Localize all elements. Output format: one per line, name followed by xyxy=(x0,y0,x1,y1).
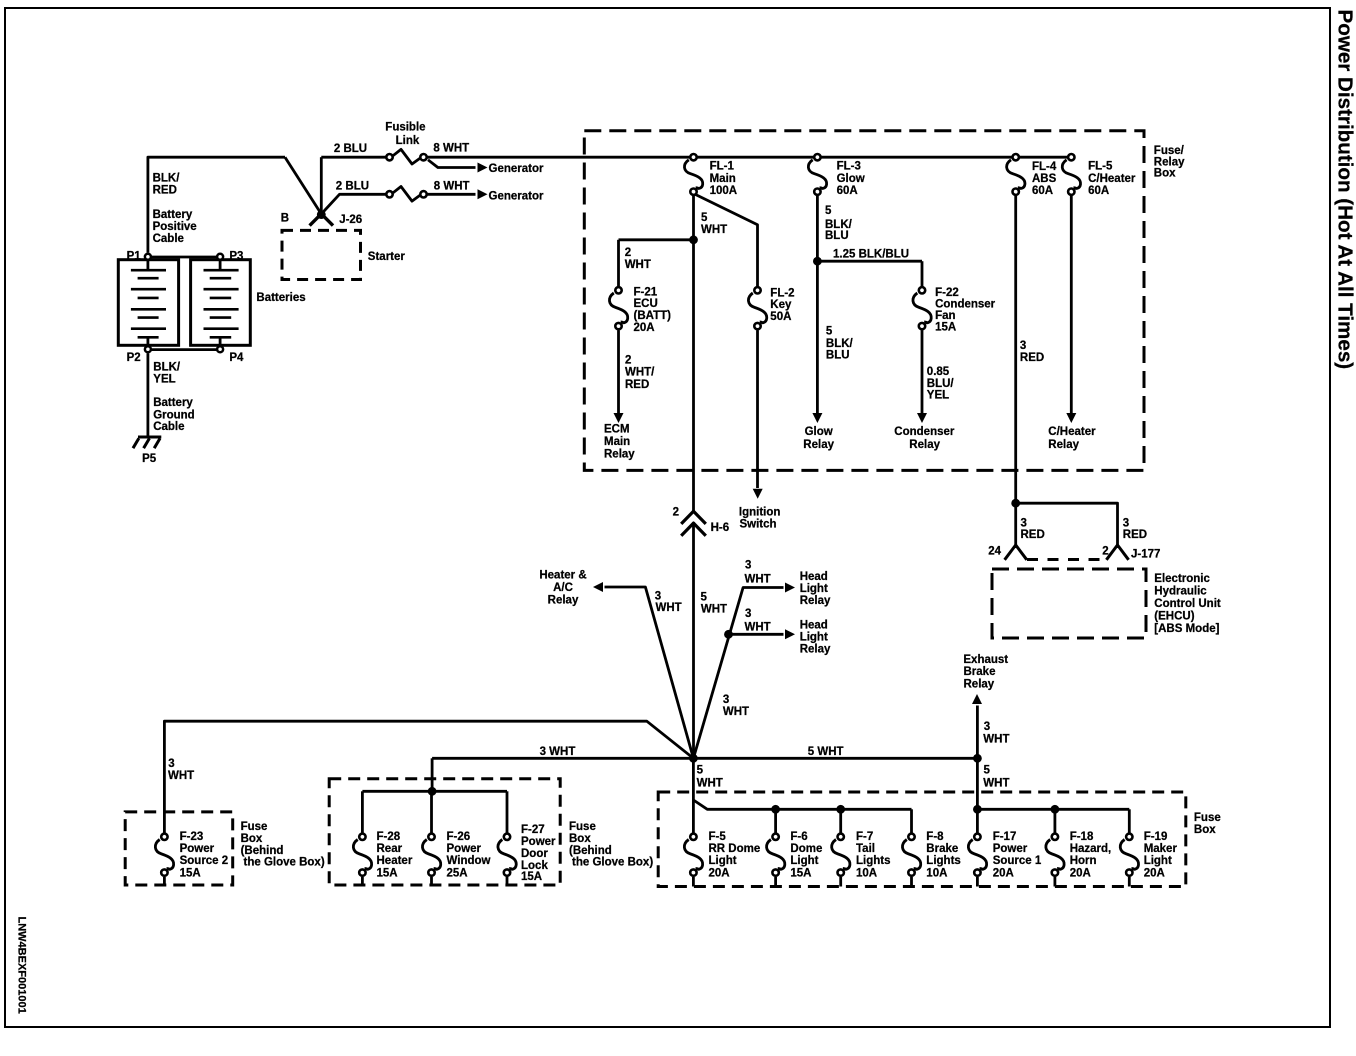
svg-text:F-27: F-27 xyxy=(521,824,545,836)
svg-text:P5: P5 xyxy=(142,453,157,465)
svg-text:Head: Head xyxy=(800,571,828,583)
svg-text:1.25 BLK/BLU: 1.25 BLK/BLU xyxy=(833,249,909,261)
svg-text:100A: 100A xyxy=(710,185,738,197)
svg-text:B: B xyxy=(281,213,289,225)
svg-text:2: 2 xyxy=(673,506,679,518)
svg-text:3: 3 xyxy=(745,608,751,620)
svg-text:20A: 20A xyxy=(709,867,730,879)
svg-text:Cable: Cable xyxy=(153,233,184,245)
svg-text:WHT: WHT xyxy=(168,770,194,782)
svg-text:Heater &: Heater & xyxy=(539,570,586,582)
svg-text:F-18: F-18 xyxy=(1070,831,1094,843)
svg-text:F-22: F-22 xyxy=(935,287,959,299)
svg-text:Light: Light xyxy=(800,583,828,595)
svg-text:Tail: Tail xyxy=(856,843,875,855)
svg-text:RED: RED xyxy=(625,379,649,391)
svg-text:BLK/: BLK/ xyxy=(153,172,181,184)
svg-text:20A: 20A xyxy=(1070,867,1091,879)
svg-text:WHT: WHT xyxy=(723,706,749,718)
svg-text:3: 3 xyxy=(745,559,751,571)
svg-text:Source 1: Source 1 xyxy=(993,855,1042,867)
svg-text:P2: P2 xyxy=(127,352,141,364)
svg-text:Lights: Lights xyxy=(926,855,961,867)
svg-text:Relay: Relay xyxy=(800,595,831,607)
svg-text:F-8: F-8 xyxy=(926,831,944,843)
svg-text:(BATT): (BATT) xyxy=(634,310,672,322)
svg-text:Box: Box xyxy=(241,833,263,845)
svg-text:WHT: WHT xyxy=(983,734,1009,746)
svg-text:Starter: Starter xyxy=(368,251,406,263)
svg-text:F-17: F-17 xyxy=(993,831,1017,843)
svg-text:Heater: Heater xyxy=(377,855,413,867)
svg-text:3 WHT: 3 WHT xyxy=(540,746,576,758)
svg-text:P1: P1 xyxy=(127,251,142,263)
svg-text:Door: Door xyxy=(521,848,548,860)
svg-text:Hazard,: Hazard, xyxy=(1070,843,1112,855)
svg-text:Maker: Maker xyxy=(1144,843,1178,855)
svg-text:WHT: WHT xyxy=(697,778,723,790)
svg-text:5: 5 xyxy=(697,765,704,777)
svg-text:ABS: ABS xyxy=(1032,173,1057,185)
svg-text:(Behind: (Behind xyxy=(569,845,612,857)
svg-text:Dome: Dome xyxy=(790,843,822,855)
svg-text:5: 5 xyxy=(984,765,991,777)
svg-text:RED: RED xyxy=(1123,529,1147,541)
svg-text:15A: 15A xyxy=(180,867,201,879)
svg-text:Horn: Horn xyxy=(1070,855,1097,867)
svg-text:F-6: F-6 xyxy=(790,831,807,843)
svg-text:Glow: Glow xyxy=(837,173,865,185)
svg-text:Lock: Lock xyxy=(521,860,548,872)
svg-text:Rear: Rear xyxy=(377,843,403,855)
svg-text:3: 3 xyxy=(1021,517,1027,529)
svg-text:20A: 20A xyxy=(634,322,655,334)
svg-text:3: 3 xyxy=(723,694,729,706)
svg-text:15A: 15A xyxy=(377,867,398,879)
svg-text:Exhaust: Exhaust xyxy=(963,654,1008,666)
svg-text:F-23: F-23 xyxy=(180,831,204,843)
svg-text:20A: 20A xyxy=(1144,867,1165,879)
svg-text:F-19: F-19 xyxy=(1144,831,1168,843)
svg-text:Fuse: Fuse xyxy=(241,821,268,833)
svg-text:FL-2: FL-2 xyxy=(770,287,794,299)
svg-text:Generator: Generator xyxy=(489,191,544,203)
svg-text:Power: Power xyxy=(521,836,556,848)
svg-text:8 WHT: 8 WHT xyxy=(433,143,469,155)
svg-text:BLK/: BLK/ xyxy=(826,338,854,350)
svg-text:Light: Light xyxy=(709,855,737,867)
svg-text:Relay: Relay xyxy=(803,439,834,451)
svg-text:RR Dome: RR Dome xyxy=(709,843,761,855)
svg-text:H-6: H-6 xyxy=(711,522,730,534)
svg-text:Fan: Fan xyxy=(935,310,955,322)
svg-text:F-7: F-7 xyxy=(856,831,873,843)
svg-text:25A: 25A xyxy=(447,867,468,879)
svg-text:Fuse/: Fuse/ xyxy=(1154,145,1185,157)
svg-text:WHT/: WHT/ xyxy=(625,367,655,379)
svg-text:3: 3 xyxy=(168,758,174,770)
svg-text:Lights: Lights xyxy=(856,855,891,867)
svg-text:Head: Head xyxy=(800,620,828,632)
svg-text:20A: 20A xyxy=(993,867,1014,879)
svg-text:15A: 15A xyxy=(521,871,542,883)
svg-text:RED: RED xyxy=(153,185,177,197)
svg-text:FL-4: FL-4 xyxy=(1032,161,1057,173)
svg-text:50A: 50A xyxy=(770,311,791,323)
svg-text:5: 5 xyxy=(825,205,832,217)
svg-text:Cable: Cable xyxy=(153,421,184,433)
svg-text:Ignition: Ignition xyxy=(739,506,781,518)
svg-text:0.85: 0.85 xyxy=(927,366,950,378)
svg-text:LNW4BEXF001001: LNW4BEXF001001 xyxy=(16,917,28,1014)
svg-text:Control Unit: Control Unit xyxy=(1154,598,1221,610)
svg-text:ECM: ECM xyxy=(604,424,630,436)
svg-text:the Glove Box): the Glove Box) xyxy=(572,857,653,869)
svg-text:F-28: F-28 xyxy=(377,831,401,843)
svg-text:2 BLU: 2 BLU xyxy=(336,181,369,193)
svg-text:BLU: BLU xyxy=(826,349,850,361)
svg-text:Switch: Switch xyxy=(740,519,777,531)
svg-text:WHT: WHT xyxy=(745,622,771,634)
svg-text:RED: RED xyxy=(1021,529,1045,541)
svg-text:the Glove Box): the Glove Box) xyxy=(244,857,325,869)
svg-text:F-26: F-26 xyxy=(447,831,471,843)
svg-text:WHT: WHT xyxy=(745,573,771,585)
svg-text:3: 3 xyxy=(1020,340,1026,352)
svg-text:3: 3 xyxy=(1123,517,1129,529)
svg-text:Box: Box xyxy=(569,833,591,845)
svg-text:Glow: Glow xyxy=(805,426,833,438)
svg-text:WHT: WHT xyxy=(701,224,727,236)
svg-text:J-177: J-177 xyxy=(1131,549,1160,561)
svg-text:WHT: WHT xyxy=(701,604,727,616)
svg-text:Box: Box xyxy=(1194,824,1216,836)
svg-text:Generator: Generator xyxy=(489,163,544,175)
svg-text:YEL: YEL xyxy=(153,374,175,386)
svg-text:5: 5 xyxy=(701,212,708,224)
svg-text:FL-1: FL-1 xyxy=(710,161,735,173)
svg-text:15A: 15A xyxy=(935,322,956,334)
svg-text:FL-5: FL-5 xyxy=(1088,161,1113,173)
svg-text:Power Distribution (Hot At All: Power Distribution (Hot At All Times) xyxy=(1334,10,1356,370)
svg-text:Brake: Brake xyxy=(964,666,996,678)
svg-text:WHT: WHT xyxy=(656,602,682,614)
svg-text:Main: Main xyxy=(710,173,736,185)
svg-text:2: 2 xyxy=(625,355,631,367)
svg-text:(Behind: (Behind xyxy=(241,845,284,857)
svg-text:2: 2 xyxy=(625,247,631,259)
svg-text:C/Heater: C/Heater xyxy=(1088,173,1136,185)
svg-text:Relay: Relay xyxy=(800,644,831,656)
svg-text:Main: Main xyxy=(604,436,630,448)
svg-text:Battery: Battery xyxy=(153,397,193,409)
svg-text:[ABS Mode]: [ABS Mode] xyxy=(1154,623,1219,635)
svg-text:Fusible: Fusible xyxy=(385,122,425,134)
svg-text:3: 3 xyxy=(984,721,990,733)
svg-text:5: 5 xyxy=(826,326,833,338)
svg-text:Battery: Battery xyxy=(153,209,193,221)
svg-text:J-26: J-26 xyxy=(339,214,362,226)
svg-text:3: 3 xyxy=(655,590,661,602)
svg-text:BLU: BLU xyxy=(825,230,849,242)
svg-text:Positive: Positive xyxy=(153,221,197,233)
svg-text:Relay: Relay xyxy=(964,678,995,690)
svg-text:8 WHT: 8 WHT xyxy=(434,181,470,193)
svg-text:Power: Power xyxy=(993,843,1028,855)
svg-text:ECU: ECU xyxy=(634,298,658,310)
svg-text:Power: Power xyxy=(180,843,215,855)
svg-text:Condenser: Condenser xyxy=(935,299,996,311)
svg-text:10A: 10A xyxy=(856,867,877,879)
svg-text:BLU/: BLU/ xyxy=(927,378,955,390)
svg-text:WHT: WHT xyxy=(625,259,651,271)
svg-text:60A: 60A xyxy=(837,185,858,197)
svg-text:Hydraulic: Hydraulic xyxy=(1154,586,1207,598)
svg-text:F-5: F-5 xyxy=(709,831,727,843)
svg-text:Brake: Brake xyxy=(926,843,958,855)
svg-text:BLK/: BLK/ xyxy=(153,362,181,374)
svg-text:2 BLU: 2 BLU xyxy=(334,143,367,155)
svg-text:15A: 15A xyxy=(790,867,811,879)
svg-text:Relay: Relay xyxy=(909,439,940,451)
svg-text:60A: 60A xyxy=(1088,185,1109,197)
svg-text:C/Heater: C/Heater xyxy=(1048,426,1096,438)
svg-text:Ground: Ground xyxy=(153,409,195,421)
svg-text:P3: P3 xyxy=(229,251,243,263)
svg-text:Fuse: Fuse xyxy=(569,821,596,833)
svg-text:Condenser: Condenser xyxy=(894,426,955,438)
svg-text:Electronic: Electronic xyxy=(1154,573,1210,585)
svg-text:Relay: Relay xyxy=(548,595,579,607)
svg-text:Key: Key xyxy=(770,299,792,311)
svg-text:Source 2: Source 2 xyxy=(180,855,229,867)
svg-text:Power: Power xyxy=(447,843,482,855)
svg-text:Window: Window xyxy=(447,855,491,867)
svg-text:24: 24 xyxy=(988,546,1001,558)
svg-text:Fuse: Fuse xyxy=(1194,812,1221,824)
svg-text:YEL: YEL xyxy=(927,390,949,402)
svg-text:Light: Light xyxy=(800,631,828,643)
svg-text:Box: Box xyxy=(1154,168,1176,180)
svg-text:5 WHT: 5 WHT xyxy=(808,746,844,758)
svg-text:Batteries: Batteries xyxy=(256,292,305,304)
svg-text:FL-3: FL-3 xyxy=(837,161,861,173)
svg-text:Link: Link xyxy=(396,135,420,147)
svg-text:60A: 60A xyxy=(1032,185,1053,197)
svg-text:Light: Light xyxy=(790,855,818,867)
svg-text:2: 2 xyxy=(1102,546,1108,558)
svg-text:A/C: A/C xyxy=(553,582,573,594)
svg-text:Light: Light xyxy=(1144,855,1172,867)
svg-text:RED: RED xyxy=(1020,352,1044,364)
svg-text:F-21: F-21 xyxy=(634,286,658,298)
svg-text:WHT: WHT xyxy=(983,778,1009,790)
svg-text:Relay: Relay xyxy=(604,449,635,461)
svg-text:(EHCU): (EHCU) xyxy=(1154,611,1194,623)
svg-text:10A: 10A xyxy=(926,867,947,879)
svg-text:P4: P4 xyxy=(229,352,244,364)
svg-text:5: 5 xyxy=(701,592,708,604)
svg-text:Relay: Relay xyxy=(1048,439,1079,451)
